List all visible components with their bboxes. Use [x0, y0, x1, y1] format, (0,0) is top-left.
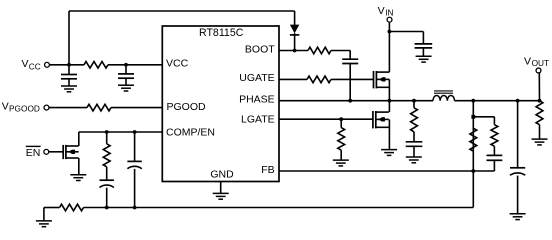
- svg-text:GND: GND: [210, 169, 234, 181]
- svg-text:V: V: [22, 58, 29, 70]
- svg-text:FB: FB: [261, 164, 274, 176]
- svg-text:PGOOD: PGOOD: [167, 101, 207, 113]
- svg-text:OUT: OUT: [532, 58, 550, 68]
- svg-text:CC: CC: [29, 62, 41, 72]
- svg-text:LGATE: LGATE: [241, 113, 275, 125]
- svg-text:V: V: [378, 5, 385, 17]
- svg-text:BOOT: BOOT: [245, 43, 275, 55]
- svg-text:V: V: [524, 55, 531, 67]
- svg-text:VCC: VCC: [166, 58, 189, 70]
- svg-text:UGATE: UGATE: [239, 72, 274, 84]
- svg-text:IN: IN: [385, 7, 393, 17]
- svg-text:EN: EN: [26, 147, 41, 159]
- svg-text:COMP/EN: COMP/EN: [166, 127, 215, 139]
- svg-text:PHASE: PHASE: [239, 94, 275, 106]
- svg-text:PGOOD: PGOOD: [9, 103, 40, 113]
- svg-text:V: V: [2, 100, 9, 112]
- svg-text:RT8115C: RT8115C: [199, 27, 244, 39]
